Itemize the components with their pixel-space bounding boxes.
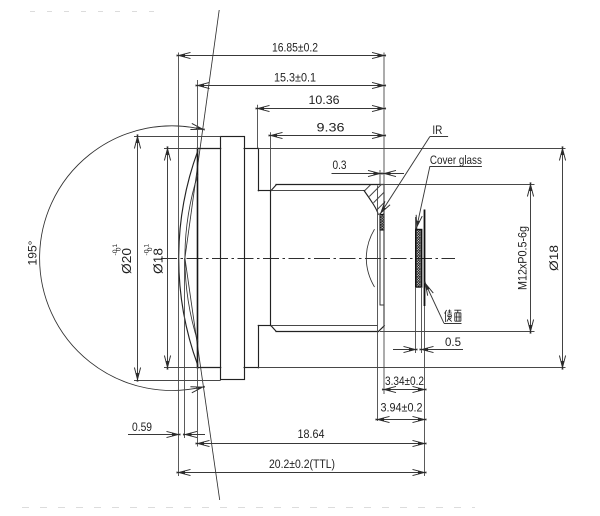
thread minor bottom <box>271 325 378 327</box>
dim phi20 left <box>112 135 141 382</box>
extension line rear reference <box>383 53 385 395</box>
extension line phi18 left top <box>164 148 198 150</box>
cover glass <box>416 230 422 288</box>
svg-text:-0.1: -0.1 <box>143 244 150 256</box>
extension line phi18 left bottom <box>164 367 198 369</box>
extension line flange bottom <box>134 380 221 382</box>
barrel section behind flange bottom edge <box>244 367 258 369</box>
extension line 10.36 <box>257 105 259 148</box>
extension line front face <box>197 80 199 148</box>
body step right edge upper <box>258 148 260 190</box>
FOV ray upper <box>185 10 219 258</box>
front barrel bottom edge <box>198 367 221 369</box>
dome lens outer surface <box>179 151 198 365</box>
extension stub above cover glass <box>415 217 417 229</box>
front face of barrel <box>197 148 199 367</box>
extension line phi18 right top <box>258 148 565 150</box>
thread chamfer top left <box>271 185 276 191</box>
extension line flange top <box>134 136 221 138</box>
extension line cover glass left <box>415 287 417 353</box>
svg-text:3.34±0.2: 3.34±0.2 <box>385 374 424 388</box>
image plane <box>424 210 426 307</box>
faint bottom border artifact <box>22 507 475 509</box>
optical axis centerline <box>161 258 455 260</box>
extension line image plane <box>424 306 426 476</box>
svg-text:195°: 195° <box>26 240 40 265</box>
svg-text:0.59: 0.59 <box>132 420 152 434</box>
thread relief groove bottom <box>258 325 271 327</box>
IR filter plate <box>380 215 384 306</box>
svg-text:20.2±0.2(TTL): 20.2±0.2(TTL) <box>269 457 335 471</box>
faint top border artifact <box>30 11 162 13</box>
groove wall <box>270 191 272 326</box>
thread minor top <box>271 190 364 192</box>
FOV ray lower <box>185 258 220 500</box>
rear chamfer bottom <box>379 326 385 332</box>
dim phi18 left <box>143 147 170 370</box>
extension line IR front <box>379 170 381 185</box>
front barrel top edge <box>198 148 221 150</box>
dome lens inner surface <box>185 174 198 342</box>
svg-text:Cover glass: Cover glass <box>430 153 482 167</box>
rear lens surface <box>366 229 374 287</box>
label image plane CJK <box>422 280 462 323</box>
rear wall bore curve <box>364 191 378 215</box>
dim 20.2 TTL <box>177 457 427 476</box>
svg-text:-0.1: -0.1 <box>112 244 119 256</box>
extension line front vertex <box>178 53 180 477</box>
rear wall section hatch <box>364 185 384 215</box>
dim 0.3 <box>332 158 405 177</box>
svg-text:16.85±0.2: 16.85±0.2 <box>272 41 318 55</box>
svg-text:M12xP0.5-6g: M12xP0.5-6g <box>516 226 530 290</box>
thread end line <box>377 186 379 422</box>
dim phi18 right <box>547 147 566 370</box>
extension line M12 bottom <box>380 331 535 333</box>
dim 3.34 <box>382 374 427 392</box>
barrel section behind flange top edge <box>244 148 258 150</box>
svg-text:IR: IR <box>432 123 442 137</box>
thread major top <box>276 184 384 186</box>
extension line front face lower <box>197 368 199 447</box>
extension line M12 top <box>380 184 535 186</box>
flange ring <box>221 137 245 380</box>
svg-text:3.94±0.2: 3.94±0.2 <box>381 400 423 414</box>
195 degree arc <box>40 126 203 391</box>
svg-text:9.36: 9.36 <box>317 121 345 135</box>
thread chamfer bottom left <box>271 326 276 332</box>
dim 10.36 <box>256 93 387 111</box>
dim 0.5 <box>393 335 463 353</box>
IR filter section hatch <box>380 215 384 231</box>
dim M12 thread <box>516 183 534 334</box>
dim 9.36 <box>269 121 387 139</box>
thread relief groove top <box>258 190 271 192</box>
dim 3.94 <box>376 400 427 422</box>
extension line phi18 right bottom <box>258 367 565 369</box>
dim 15.3 <box>196 71 387 89</box>
body step right edge lower <box>258 326 260 368</box>
extension line cover glass right <box>421 287 423 353</box>
label IR <box>377 123 448 216</box>
dim 0.59 <box>128 420 205 438</box>
thread major bottom <box>276 331 379 333</box>
svg-text:0.3: 0.3 <box>333 158 347 172</box>
extension line 9.36 <box>270 132 272 190</box>
dim 18.64 <box>196 427 427 447</box>
dim 16.85 <box>177 41 387 59</box>
label Cover glass <box>413 153 482 230</box>
extension line inner vertex <box>184 258 186 438</box>
rear face <box>383 186 385 326</box>
svg-text:Ø18: Ø18 <box>547 245 561 271</box>
svg-text:15.3±0.1: 15.3±0.1 <box>274 71 316 85</box>
svg-text:0.5: 0.5 <box>445 335 461 349</box>
svg-text:10.36: 10.36 <box>309 93 340 107</box>
svg-text:18.64: 18.64 <box>298 427 325 441</box>
